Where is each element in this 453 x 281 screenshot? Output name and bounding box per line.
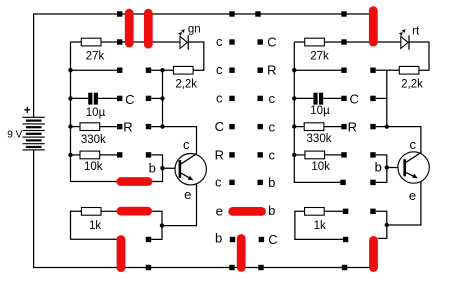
label gn — [188, 24, 201, 36]
svg-text:c: c — [216, 62, 223, 77]
node col5 row4 — [341, 124, 346, 129]
node col5 row2 — [341, 68, 346, 73]
svg-text:R: R — [267, 63, 276, 78]
svg-text:+: + — [24, 103, 31, 117]
LED D2 light arrows — [399, 29, 406, 36]
node col3 row8 — [230, 237, 235, 242]
svg-text:rt: rt — [412, 25, 420, 37]
wire LED D2 cathode to 2,2k — [409, 42, 429, 70]
node col4 row8 — [259, 237, 264, 242]
svg-text:e: e — [216, 203, 223, 218]
svg-text:C: C — [267, 35, 276, 50]
label R left block — [123, 120, 132, 135]
node col2 bottom rail — [146, 265, 151, 270]
capacitor C1 10u left — [71, 93, 120, 105]
wire right col6 row3 to bus — [376, 97, 387, 99]
label b Q2 — [375, 160, 382, 175]
node col3 row5 — [229, 152, 234, 157]
wire right bracket emitter row7 row8 — [376, 211, 387, 238]
wire left col2 row2 to 2,2k — [151, 69, 173, 71]
wire right col6 row4 to collector — [376, 127, 421, 154]
wire left loop vertical bus — [71, 42, 117, 182]
junction right bus row2 — [292, 68, 296, 72]
svg-text:1k: 1k — [314, 220, 326, 232]
svg-text:2,2k: 2,2k — [401, 79, 423, 91]
jumper red top-left 1 — [125, 13, 134, 43]
jumper red mid row8 — [237, 239, 246, 268]
label c Q2 — [410, 137, 417, 152]
label C mid-left row4 — [215, 119, 224, 134]
node col6 row4 — [370, 124, 375, 129]
node col2 row5 — [146, 152, 151, 157]
node col5 row8 — [343, 237, 348, 242]
junction left bus row5 — [68, 153, 72, 157]
node col2 row3 — [146, 96, 151, 101]
wire LED cathode to 2,2k — [188, 42, 204, 70]
label C right block — [350, 92, 359, 107]
label 330k right — [307, 133, 332, 145]
node col3 row1 — [229, 39, 234, 44]
node col5 row7 — [343, 209, 348, 214]
junction left emitter — [160, 223, 164, 227]
label rt — [412, 25, 420, 37]
node col1 top rail — [117, 11, 122, 16]
junction left bus row2 — [68, 68, 72, 72]
node col2 row2 — [146, 68, 151, 73]
wire row2 left — [71, 69, 120, 71]
node col5 bottom rail — [342, 265, 347, 270]
label c mid-left row1 — [216, 34, 223, 49]
resistor R10 1k right — [295, 208, 343, 240]
node col4 row1 — [258, 39, 263, 44]
label c mid-right row5 — [269, 148, 276, 163]
svg-text:c: c — [269, 148, 276, 163]
wire top rail — [34, 14, 374, 117]
svg-text:R: R — [123, 120, 132, 135]
node col1 row5 — [117, 152, 122, 157]
svg-text:e: e — [184, 187, 191, 202]
LED D1 green — [180, 35, 188, 50]
node col1 row2 — [117, 68, 122, 73]
node col1 row4 — [117, 124, 122, 129]
svg-text:R: R — [348, 120, 357, 135]
label c mid-left row6 — [215, 175, 222, 190]
junction right bus row5 — [292, 153, 296, 157]
node col5 row5 — [341, 152, 346, 157]
junction right bus row3 — [292, 96, 296, 100]
svg-text:b: b — [268, 175, 275, 190]
wire base Q2 — [387, 167, 404, 169]
label c mid-right row4 — [269, 119, 276, 134]
label 10u left — [86, 107, 106, 119]
wire emitter Q1 — [162, 184, 197, 226]
svg-text:27k: 27k — [86, 51, 105, 63]
svg-text:C: C — [215, 119, 224, 134]
resistor R5 1k left — [71, 208, 122, 240]
node col4 row6 — [258, 180, 263, 185]
junction left bus row2b — [160, 68, 164, 72]
svg-text:C: C — [268, 232, 277, 247]
resistor R6 27k right — [294, 38, 344, 46]
svg-text:b: b — [375, 160, 382, 175]
junction right bus row4b — [385, 124, 389, 128]
label 1k right — [314, 220, 326, 232]
svg-text:b: b — [149, 160, 156, 175]
label b mid-right row6 — [268, 175, 275, 190]
svg-text:R: R — [215, 147, 224, 162]
transistor Q2 — [398, 152, 429, 183]
node col1 row3 — [117, 96, 122, 101]
svg-text:gn: gn — [188, 24, 201, 36]
resistor R9 10k right — [294, 151, 344, 159]
label c mid-left row2 — [216, 62, 223, 77]
resistor R4 10k left — [71, 151, 120, 159]
label 330k left — [81, 134, 106, 146]
label R mid-right row2 — [267, 63, 276, 78]
node col4 row3 — [258, 96, 263, 101]
wire left bracket emitter row7 row8 — [151, 211, 162, 239]
node col3 row6 — [229, 180, 234, 185]
label 27k right — [310, 51, 329, 63]
label c Q1 — [183, 137, 190, 152]
jumper red top-left 2 — [144, 13, 153, 44]
svg-text:e: e — [409, 188, 416, 203]
label 10u right — [310, 105, 330, 117]
svg-text:c: c — [216, 90, 223, 105]
node col6 row3 — [370, 96, 375, 101]
svg-text:c: c — [269, 119, 276, 134]
battery plus sign — [24, 103, 31, 117]
svg-text:10k: 10k — [84, 161, 103, 173]
wire left col2 row3 to bus — [151, 97, 162, 99]
wire right bracket base Q2 — [376, 155, 387, 183]
resistor R8 330k right — [294, 123, 344, 131]
jumper red mid row7 — [233, 207, 262, 216]
label C mid-right row1 — [267, 35, 276, 50]
junction left bus row4b — [160, 124, 164, 128]
svg-text:C: C — [125, 92, 134, 107]
junction right bus row4 — [292, 124, 296, 128]
node col5 top rail — [341, 11, 346, 16]
node col6 row6 — [370, 180, 375, 185]
svg-text:27k: 27k — [310, 51, 329, 63]
junction left bus row3b — [160, 96, 164, 100]
label 2,2k left — [175, 79, 197, 91]
node col2 row4 — [146, 124, 151, 129]
label b mid-left row8 — [215, 231, 222, 246]
svg-text:c: c — [215, 175, 222, 190]
label b Q1 — [149, 160, 156, 175]
junction right base — [385, 165, 389, 169]
svg-text:c: c — [183, 137, 190, 152]
resistor R2 2,2k left — [174, 66, 194, 74]
wire right bus vertical row2-row4 — [386, 70, 388, 126]
wire emitter Q2 — [387, 181, 421, 225]
LED D1 light arrows — [178, 29, 185, 36]
wire bottom rail — [34, 150, 374, 268]
node col6 row7 — [370, 209, 375, 214]
label R right block — [348, 120, 357, 135]
label 10k left — [84, 161, 103, 173]
svg-text:1k: 1k — [89, 220, 101, 232]
resistor R1 27k left — [71, 38, 120, 46]
node col5 row1 — [341, 39, 346, 44]
jumper red bottom-left — [117, 240, 126, 268]
svg-text:9 V: 9 V — [7, 130, 22, 141]
battery BT1 9V — [23, 117, 45, 151]
node col3 row2 — [229, 68, 234, 73]
resistor R7 2,2k right — [387, 66, 419, 74]
jumper red left row6 — [121, 177, 148, 186]
node col4 row4 — [258, 124, 263, 129]
svg-text:330k: 330k — [307, 133, 332, 145]
label c mid-right row3 — [269, 91, 276, 106]
node col5 row6 — [340, 180, 345, 185]
svg-text:c: c — [216, 34, 223, 49]
svg-text:c: c — [269, 91, 276, 106]
label R mid-left row5 — [215, 147, 224, 162]
junction left bus row4 — [68, 124, 72, 128]
node col4 row5 — [258, 152, 263, 157]
wire right loop vertical bus — [294, 42, 341, 182]
label C left block — [125, 92, 134, 107]
svg-text:C: C — [350, 92, 359, 107]
jumper red bottom-right — [369, 240, 378, 267]
wire row2 right — [294, 69, 344, 71]
node col4 bottom rail — [258, 265, 263, 270]
label b mid-right row7 — [268, 203, 275, 218]
node col4 top rail — [255, 11, 260, 16]
node col6 row2 — [370, 68, 375, 73]
junction left bus row3 — [68, 96, 72, 100]
wire left bracket base Q1 — [151, 155, 162, 182]
junction right emitter — [385, 223, 389, 227]
jumper red top-right — [369, 11, 378, 42]
node col1 row1 — [117, 39, 122, 44]
LED D2 red — [401, 35, 409, 50]
label e Q2 — [409, 188, 416, 203]
node col3 bottom rail — [229, 265, 234, 270]
node col6 row5 — [370, 152, 375, 157]
node col5 row3 — [341, 96, 346, 101]
node col2 row8 — [146, 237, 151, 242]
svg-text:10k: 10k — [311, 161, 330, 173]
wire right col6 row2 to bus — [376, 69, 387, 71]
label c mid-left row3 — [216, 90, 223, 105]
label 10k right — [311, 161, 330, 173]
label C mid-right row8 — [268, 232, 277, 247]
jumper red left row7 — [121, 207, 148, 216]
transistor Q1 — [175, 154, 206, 185]
resistor R3 330k left — [71, 123, 120, 131]
node col3 top rail — [229, 11, 234, 16]
label 2,2k right — [401, 79, 423, 91]
battery value 9 V — [7, 130, 22, 141]
svg-text:2,2k: 2,2k — [175, 79, 197, 91]
svg-text:b: b — [268, 203, 275, 218]
node col3 row3 — [229, 96, 234, 101]
label e mid-left row7 — [216, 203, 223, 218]
svg-text:c: c — [410, 137, 417, 152]
capacitor C2 10u right — [294, 93, 344, 105]
svg-text:b: b — [215, 231, 222, 246]
svg-text:10µ: 10µ — [310, 105, 330, 117]
node col3 row4 — [229, 124, 234, 129]
wire row1 left to LED — [120, 41, 180, 43]
label 27k left — [86, 51, 105, 63]
label e Q1 — [184, 187, 191, 202]
wire row1 right to LED — [344, 41, 401, 43]
wire base Q1 — [163, 167, 179, 169]
junction left base — [160, 166, 164, 170]
wire left bus vertical row2-row4 — [162, 70, 164, 126]
svg-text:10µ: 10µ — [86, 107, 106, 119]
wire left col2 row4 to collector — [151, 127, 196, 155]
node col4 row2 — [258, 68, 263, 73]
svg-text:330k: 330k — [81, 134, 106, 146]
label 1k left — [89, 220, 101, 232]
